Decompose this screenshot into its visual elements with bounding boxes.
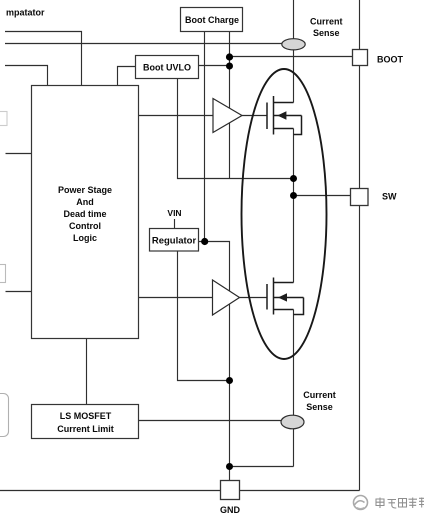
svg-text:Current: Current <box>303 390 336 400</box>
svg-text:Control: Control <box>69 221 101 231</box>
wire power stage to current limit <box>86 339 88 406</box>
svg-text:mpatator: mpatator <box>6 8 45 18</box>
svg-text:Boot UVLO: Boot UVLO <box>143 63 191 73</box>
pad BOOT <box>353 50 368 66</box>
transistor Q1 high-side MOSFET <box>267 96 302 135</box>
svg-text:SW: SW <box>382 192 397 202</box>
svg-text:GND: GND <box>220 505 241 515</box>
block Boot UVLO <box>136 56 199 79</box>
wire regulator output <box>199 242 230 482</box>
wire hs driver to gate <box>242 115 267 117</box>
wire ls driver to gate <box>240 297 267 299</box>
junction dot uvlo wire <box>226 63 233 70</box>
wire top current sense vertical <box>293 0 295 103</box>
watermark logo <box>354 496 368 510</box>
junction dot regulator ground <box>226 377 233 384</box>
svg-text:BOOT: BOOT <box>377 55 404 65</box>
wire ls source to bottom sense <box>293 310 295 467</box>
wire regulator ground <box>178 251 230 381</box>
wire right rail <box>359 0 361 491</box>
svg-text:Current Limit: Current Limit <box>57 424 114 434</box>
wire mosfet midpoint rail <box>293 129 295 283</box>
wire boot uvlo right <box>199 65 230 67</box>
wire current limit to bottom sense <box>139 420 282 422</box>
wire to BOOT pad <box>230 56 353 58</box>
junction dot sw node lower <box>290 192 297 199</box>
power stage enclosure ellipse <box>242 69 327 359</box>
svg-text:Boot Charge: Boot Charge <box>185 15 239 25</box>
svg-text:Power Stage: Power Stage <box>58 185 112 195</box>
wire comparator output 1 <box>5 32 82 87</box>
wire boot uvlo bottom to SW node <box>178 79 294 179</box>
faint cropped box C <box>0 394 9 437</box>
wire boot charge right down <box>229 32 231 179</box>
faint cropped box B <box>0 265 6 283</box>
op-amp U2 low-side driver <box>213 280 240 315</box>
svg-text:Dead time: Dead time <box>63 209 106 219</box>
wire left input B <box>6 291 33 293</box>
junction dot sw node upper <box>290 175 297 182</box>
op-amp U1 high-side driver <box>213 99 242 133</box>
wire VIN stub <box>174 219 176 228</box>
svg-text:And: And <box>76 197 94 207</box>
wire bottom sense to gnd node <box>230 466 294 468</box>
svg-text:Current: Current <box>310 16 343 26</box>
wire boot charge left down <box>204 32 206 242</box>
watermark text <box>376 498 424 509</box>
wire gnd rail <box>0 490 360 492</box>
wire left input A <box>6 153 33 155</box>
wire comparator output 3 <box>5 66 48 87</box>
svg-text:Sense: Sense <box>306 402 333 412</box>
junction dot boot wire <box>226 53 233 60</box>
block Power Stage And Dead time Control Logic <box>32 86 139 339</box>
junction dot gnd node <box>226 463 233 470</box>
transistor Q2 low-side MOSFET <box>267 278 304 315</box>
svg-text:Regulator: Regulator <box>152 236 197 247</box>
wire SW node to SW pad <box>294 195 351 197</box>
wire boot uvlo left to power stage <box>118 67 136 87</box>
wire hs driver input <box>139 115 214 117</box>
faint cropped box A <box>0 112 7 126</box>
wire ls driver input <box>139 297 213 299</box>
svg-text:Sense: Sense <box>313 28 340 38</box>
svg-text:LS MOSFET: LS MOSFET <box>60 411 112 421</box>
block LS MOSFET Current Limit <box>32 405 139 439</box>
svg-text:Logic: Logic <box>73 233 97 243</box>
block Boot Charge <box>181 8 243 32</box>
block Regulator <box>150 229 199 252</box>
wire comparator output 2 to current sense <box>5 43 283 45</box>
pad SW <box>351 189 369 206</box>
svg-text:VIN: VIN <box>167 208 181 218</box>
current sense element top <box>282 39 305 50</box>
pad GND <box>221 481 240 500</box>
junction dot regulator output <box>201 238 208 245</box>
current sense element bottom <box>281 415 304 429</box>
